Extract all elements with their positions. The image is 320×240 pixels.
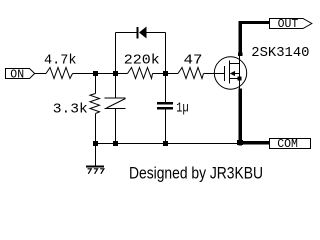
wire R2 to bottom rail — [95, 114, 97, 144]
wire C1 to bottom rail — [115, 109, 117, 144]
capacitor C1 diagonal — [107, 99, 126, 109]
svg-text:220k: 220k — [124, 53, 160, 69]
wire node B down to capacitor C1 — [115, 74, 117, 99]
wire R4 to gate of Q1 — [204, 73, 225, 75]
wire diode down to node C — [165, 33, 167, 74]
wire diode right horizontal — [147, 32, 166, 34]
resistor R3 220k zigzag — [128, 68, 153, 79]
transistor Q1 body arrow line — [233, 73, 240, 75]
transistor Q1 channel bar — [229, 61, 231, 84]
wire node A down to R2 — [95, 74, 97, 94]
wire R1 to node A — [73, 73, 96, 75]
wire node C to R4 — [166, 73, 179, 75]
wire node B to R3 — [116, 73, 128, 75]
thick drain bus vertical — [239, 21, 242, 56]
transistor Q1 source branch — [230, 78, 240, 80]
node A junction dot — [93, 71, 98, 76]
thick source bus vertical — [239, 88, 242, 145]
wire rail down to ground — [95, 144, 97, 167]
wire diode left horizontal — [116, 32, 138, 34]
diode D1 triangle — [139, 27, 147, 39]
rail junction dot at R2 — [93, 141, 98, 146]
svg-text:4.7k: 4.7k — [44, 53, 77, 69]
wire node B up to diode D1 — [115, 33, 117, 74]
wire ON to R1 — [35, 73, 46, 75]
ground stroke 3 — [100, 169, 104, 174]
net label OUT flag — [270, 19, 312, 29]
drain bus top junction dot — [238, 52, 243, 56]
bottom rail wire — [96, 143, 241, 145]
capacitor C1 bottom plate — [105, 108, 126, 110]
net label COM box — [270, 139, 311, 149]
svg-text:3.3k: 3.3k — [53, 102, 88, 118]
transistor Q1 gate bar — [224, 66, 226, 81]
node B junction dot — [113, 71, 118, 76]
thick wire to OUT — [239, 21, 271, 24]
svg-text:Designed by JR3KBU: Designed by JR3KBU — [129, 163, 263, 182]
svg-text:1µ: 1µ — [176, 101, 188, 117]
transistor Q1 body arrowhead — [230, 71, 235, 76]
transistor Q1 pin line — [239, 54, 241, 90]
capacitor C2 top plate — [157, 102, 173, 105]
resistor R1 4.7k zigzag — [46, 68, 73, 79]
resistor R2 3.3k vertical zigzag — [90, 94, 100, 114]
wire node C down to capacitor C2 — [165, 74, 167, 103]
transistor Q1 drain branch — [230, 63, 240, 65]
ground stroke 2 — [94, 169, 98, 174]
wire C2 to bottom rail — [165, 110, 167, 144]
wire R3 to node C — [153, 73, 166, 75]
thick wire to COM — [237, 141, 270, 145]
rail junction dot at C1 — [113, 141, 118, 146]
svg-text:47: 47 — [184, 53, 203, 69]
transistor Q1 2SK3140 circle — [214, 57, 246, 89]
transistor Q1 source junction dot — [238, 77, 242, 81]
net label ON flag — [6, 69, 35, 79]
capacitor C2 bottom plate — [157, 107, 173, 110]
svg-text:2SK3140: 2SK3140 — [251, 45, 309, 61]
svg-text:ON: ON — [10, 69, 24, 82]
resistor R4 47 zigzag — [178, 68, 204, 79]
ground stroke 1 — [88, 169, 92, 174]
ground bar — [86, 166, 104, 168]
svg-text:OUT: OUT — [278, 18, 299, 31]
rail junction dot at C2 — [163, 141, 168, 146]
source bus bottom junction dot — [237, 140, 243, 145]
diode D1 cathode bar — [137, 27, 139, 39]
svg-text:COM: COM — [277, 138, 298, 151]
node C junction dot — [163, 71, 168, 76]
capacitor C1 top plate — [105, 97, 126, 99]
wire node A to node B — [96, 73, 116, 75]
